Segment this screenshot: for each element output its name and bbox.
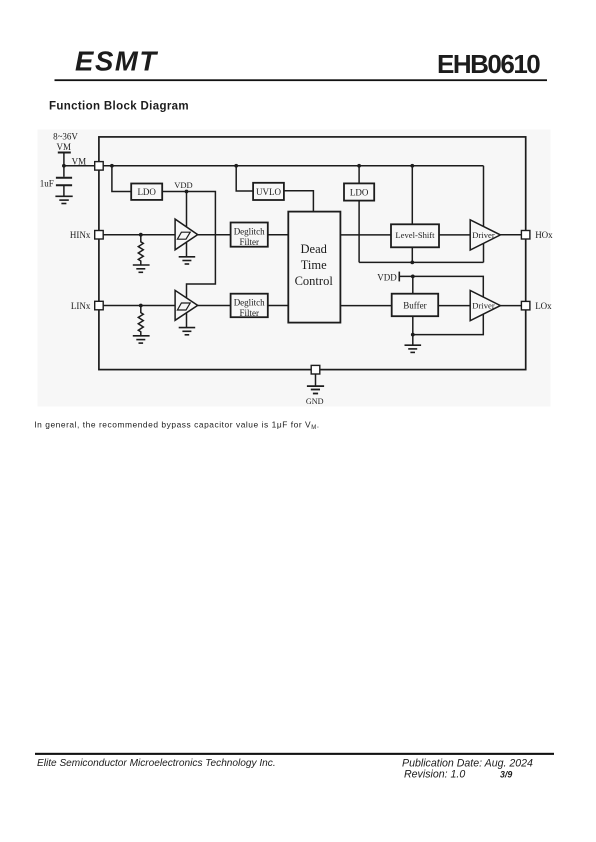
resistor R2: [138, 306, 143, 336]
hysteresis symbol U2: [177, 303, 190, 310]
svg-text:Deglitch: Deglitch: [234, 227, 265, 237]
junction node buffer ground: [411, 333, 415, 337]
wire VDD node down through comparator U1: [186, 192, 188, 257]
LDO U7 box: [344, 183, 374, 200]
wire DTC to buffer: [340, 305, 391, 307]
resistor R1: [138, 235, 143, 265]
ground below R1: [133, 265, 150, 272]
wire comparator U2 output: [198, 305, 231, 307]
junction node level-shift bottom: [410, 261, 414, 265]
wire UVLO output to DTC: [284, 191, 314, 212]
svg-text:Dead: Dead: [301, 242, 328, 256]
ground below R2: [133, 336, 150, 343]
ground below U2: [179, 328, 196, 335]
junction node R1: [139, 233, 143, 237]
svg-text:8~36V: 8~36V: [53, 132, 78, 142]
wire buffer to driver U4: [438, 305, 470, 307]
svg-text:Function Block Diagram: Function Block Diagram: [49, 101, 189, 113]
ground below C1: [55, 196, 72, 203]
ground below U1: [179, 257, 196, 264]
buffer box: [392, 294, 439, 317]
wire GND pin stub: [315, 374, 317, 386]
svg-text:ESMT: ESMT: [75, 46, 158, 77]
junction node LDO2 tap: [357, 164, 361, 168]
deglitch filter 1 box: [231, 223, 268, 247]
svg-text:Time: Time: [301, 258, 327, 272]
svg-text:LINx: LINx: [71, 301, 91, 311]
driver U4: [470, 291, 500, 321]
wire VDD low rail: [399, 276, 483, 334]
svg-text:Filter: Filter: [239, 237, 259, 247]
svg-text:In general, the recommended by: In general, the recommended bypass capac…: [34, 419, 319, 431]
VDD tick low side: [398, 272, 400, 282]
junction node VDD low: [411, 275, 415, 279]
junction node R2: [139, 304, 143, 308]
svg-text:VDD: VDD: [174, 180, 192, 190]
outer block boundary: [99, 137, 526, 370]
svg-text:Level-Shift: Level-Shift: [395, 230, 435, 240]
ground symbol GND pin: [307, 386, 324, 393]
footer rule: [35, 753, 554, 755]
svg-text:Driver: Driver: [472, 230, 495, 240]
comparator U1: [175, 219, 198, 250]
wire level-shift tap: [411, 166, 413, 225]
svg-text:LOx: LOx: [535, 301, 552, 311]
svg-text:LDO: LDO: [350, 187, 369, 197]
deglitch filter 2 box: [231, 294, 268, 318]
pin HINx: [95, 231, 104, 240]
wire level-shift to driver U3: [439, 234, 470, 236]
diagram gray background: [38, 130, 551, 407]
wire LINx input: [103, 305, 175, 307]
svg-text:HOx: HOx: [535, 230, 553, 240]
header rule: [55, 79, 548, 81]
wire cap node to VM pin: [64, 165, 95, 167]
wire LDO2 tap: [358, 166, 360, 184]
pin LOx: [521, 301, 530, 310]
svg-text:VM: VM: [57, 142, 72, 152]
wire cap to ground: [63, 185, 65, 196]
hysteresis symbol U1: [177, 232, 190, 239]
wire deglitch1 to DTC: [268, 234, 289, 236]
svg-text:EHB0610: EHB0610: [437, 49, 540, 79]
junction node at cap: [62, 164, 66, 168]
comparator U2: [175, 290, 198, 320]
wire supply to cap: [63, 153, 65, 177]
wire driver U4 to LOx: [500, 305, 521, 307]
svg-text:HINx: HINx: [70, 230, 91, 240]
svg-text:LDO: LDO: [137, 187, 156, 197]
junction node after VM pin: [110, 164, 114, 168]
junction node level-shift tap: [410, 164, 414, 168]
ground below buffer: [405, 345, 422, 352]
wire LDO2 bottom drop: [358, 201, 360, 263]
svg-text:1uF: 1uF: [40, 178, 54, 188]
level-shift box: [391, 224, 439, 247]
wire HINx input: [103, 234, 175, 236]
wire level-shift bottom drop: [411, 247, 413, 262]
svg-text:Elite Semiconductor Microelect: Elite Semiconductor Microelectronics Tec…: [37, 758, 276, 769]
svg-text:Control: Control: [295, 274, 334, 288]
pin LINx: [95, 301, 104, 310]
supply rail tick VM: [58, 152, 71, 154]
svg-text:Driver: Driver: [472, 301, 495, 311]
wire buffer bottom to ground: [412, 316, 414, 345]
wire comparator U1 output: [198, 234, 231, 236]
wire high-side bottom horizontal: [359, 261, 483, 263]
capacitor C1 plates: [56, 178, 72, 186]
wire UVLO tap: [236, 166, 253, 191]
wire rail corner down to high-side bottom: [483, 166, 485, 263]
dead time control box: [288, 212, 340, 323]
junction node UVLO tap: [234, 164, 238, 168]
svg-text:Deglitch: Deglitch: [234, 298, 265, 308]
wire deglitch2 to DTC: [268, 305, 289, 307]
svg-text:3/9: 3/9: [500, 770, 512, 780]
wire VDD rail horizontal: [103, 165, 483, 167]
wire LDO1 output to VDD corner: [162, 192, 215, 328]
LDO U5 box: [131, 184, 162, 200]
pin GND: [311, 365, 320, 374]
pin VM: [95, 162, 104, 171]
wire DTC to level-shift: [340, 234, 391, 236]
junction node VDD: [185, 190, 189, 194]
wire LDO1 tap: [112, 166, 131, 192]
svg-text:VDD: VDD: [377, 273, 397, 283]
svg-text:Revision: 1.0: Revision: 1.0: [404, 768, 465, 780]
wire buffer top supply: [412, 276, 414, 293]
svg-text:UVLO: UVLO: [256, 187, 281, 197]
UVLO U6 box: [253, 183, 284, 200]
label dead time control: [295, 242, 334, 288]
driver U3: [470, 220, 500, 250]
svg-text:Filter: Filter: [239, 308, 259, 318]
svg-text:GND: GND: [306, 397, 324, 406]
svg-text:VM: VM: [72, 157, 87, 167]
svg-text:Buffer: Buffer: [403, 301, 426, 311]
wire driver U3 to HOx: [500, 234, 521, 236]
pin HOx: [521, 231, 530, 240]
